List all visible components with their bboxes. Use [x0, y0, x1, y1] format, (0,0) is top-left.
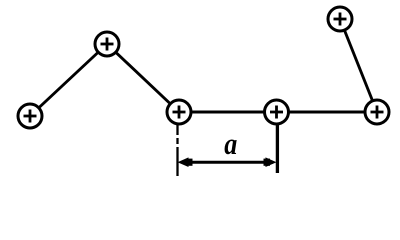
svg-text:a: a	[224, 127, 237, 162]
